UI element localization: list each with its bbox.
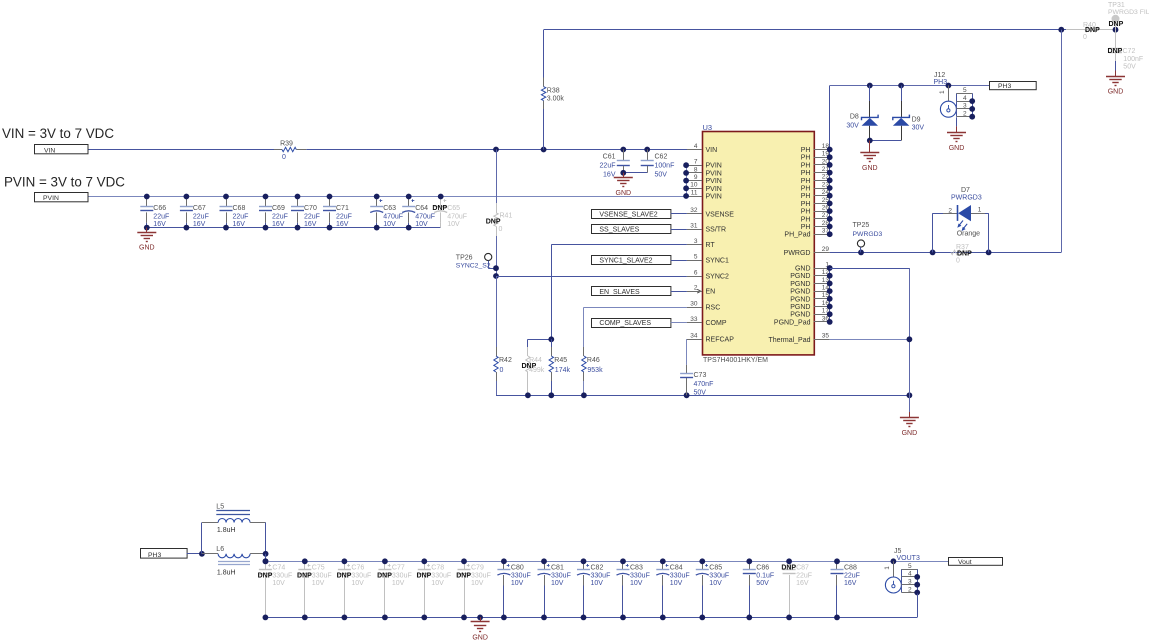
svg-text:22uF: 22uF [233, 214, 249, 221]
wire Vout bottom rail [265, 617, 917, 619]
resistor R38 [541, 78, 564, 110]
svg-text:PH: PH [801, 178, 811, 185]
svg-text:C81: C81 [551, 564, 564, 571]
test point TP26 [456, 253, 492, 269]
svg-text:10V: 10V [670, 580, 683, 587]
svg-text:PH: PH [801, 162, 811, 169]
svg-text:10: 10 [690, 182, 698, 189]
svg-text:0: 0 [1083, 34, 1087, 41]
svg-text:499k: 499k [529, 367, 545, 374]
svg-text:J5: J5 [894, 548, 902, 555]
diode D7 (LED PWRGD3 Orange) [933, 187, 989, 253]
wire REFCAP down [686, 339, 688, 365]
junction L junction left [199, 551, 205, 557]
svg-text:C84: C84 [670, 564, 683, 571]
svg-text:10V: 10V [272, 580, 285, 587]
inductor L6 [202, 546, 266, 577]
net label box EN_SLAVES [592, 287, 671, 296]
svg-text:16V: 16V [272, 221, 285, 228]
capacitor C86 [743, 561, 774, 617]
svg-text:GND: GND [139, 245, 155, 252]
svg-text:L5: L5 [216, 504, 224, 511]
svg-text:16V: 16V [304, 221, 317, 228]
svg-text:GND: GND [902, 430, 918, 437]
svg-text:330uF: 330uF [471, 573, 491, 580]
wire SYNC1 net [671, 260, 687, 262]
svg-text:PH: PH [801, 224, 811, 231]
net flag PH3 [990, 82, 1037, 90]
svg-text:330uF: 330uF [351, 573, 371, 580]
resistor R44 (DNP) [522, 347, 545, 395]
capacitor C81 [538, 561, 571, 617]
wire VIN rail right [306, 149, 687, 151]
svg-text:R38: R38 [547, 87, 560, 94]
junction gnd rail [525, 392, 912, 398]
svg-text:PWRGD: PWRGD [784, 250, 811, 257]
svg-text:22uF: 22uF [272, 214, 288, 221]
wire top feedback wire [544, 29, 1066, 31]
wire R42 to gnd rail [496, 381, 498, 395]
svg-text:470uF: 470uF [447, 214, 467, 221]
wire R38 upper [543, 30, 545, 78]
svg-text:PH3: PH3 [934, 79, 948, 86]
resistor R42 [494, 347, 512, 381]
svg-text:D8: D8 [850, 114, 859, 121]
svg-text:5: 5 [963, 87, 967, 94]
svg-text:330uF: 330uF [272, 573, 292, 580]
svg-text:10V: 10V [630, 580, 643, 587]
svg-text:VIN: VIN [706, 147, 718, 154]
svg-text:22uF: 22uF [796, 573, 812, 580]
svg-text:TP25: TP25 [853, 222, 870, 229]
svg-text:1: 1 [939, 90, 946, 94]
wire PH to protection [830, 85, 990, 87]
wire PVIN cap bottom rail [147, 227, 441, 229]
svg-text:3.00k: 3.00k [547, 95, 565, 102]
capacitor C74 [258, 561, 293, 617]
title text VIN [2, 126, 114, 141]
svg-text:C83: C83 [630, 564, 643, 571]
svg-text:DNP: DNP [1108, 48, 1123, 55]
capacitor C88 [831, 561, 860, 617]
junction SYNC2 node [493, 265, 499, 279]
U3 left pins (stubs, numbers, names) [687, 143, 734, 344]
svg-text:SS_SLAVES: SS_SLAVES [599, 227, 639, 234]
svg-text:10V: 10V [511, 580, 524, 587]
svg-text:0.1uF: 0.1uF [756, 573, 774, 580]
svg-text:DNP: DNP [456, 573, 471, 580]
junction C61 gnd node [620, 170, 626, 176]
wire D9 bottom link [870, 140, 901, 142]
svg-text:3: 3 [908, 579, 912, 586]
svg-text:GND: GND [949, 145, 965, 152]
capacitor C75 [297, 561, 332, 617]
svg-text:PVIN: PVIN [706, 170, 722, 177]
svg-text:C79: C79 [471, 564, 484, 571]
svg-text:330uF: 330uF [431, 573, 451, 580]
net label box SYNC1_SLAVE2 [592, 256, 671, 265]
svg-text:10V: 10V [383, 221, 396, 228]
svg-text:VSENSE: VSENSE [706, 211, 735, 218]
svg-text:22uF: 22uF [193, 214, 209, 221]
svg-text:C61: C61 [603, 154, 616, 161]
svg-text:GND: GND [795, 266, 811, 273]
svg-text:VSENSE_SLAVE2: VSENSE_SLAVE2 [599, 211, 657, 218]
svg-text:DNP: DNP [337, 573, 352, 580]
svg-text:C63: C63 [383, 205, 396, 212]
wire R45 upper lead [551, 339, 553, 347]
wire SYNC2 [496, 276, 687, 278]
U3 right pins (stubs, numbers, names) [768, 143, 829, 344]
svg-text:330uF: 330uF [312, 573, 332, 580]
svg-text:4: 4 [908, 571, 912, 578]
resistor R45 [549, 347, 570, 381]
svg-text:330uF: 330uF [709, 573, 729, 580]
svg-text:PVIN: PVIN [43, 195, 59, 202]
svg-text:DNP: DNP [781, 564, 796, 571]
wire VIN rail left [89, 149, 275, 151]
svg-text:J12: J12 [934, 72, 945, 79]
wire R44 branch down [527, 339, 529, 347]
svg-text:DNP: DNP [1085, 27, 1100, 34]
svg-text:PH: PH [801, 186, 811, 193]
svg-text:R42: R42 [499, 357, 512, 364]
svg-text:10V: 10V [447, 221, 460, 228]
capacitor C73 [680, 365, 713, 397]
svg-text:470nF: 470nF [694, 381, 714, 388]
svg-text:PH: PH [801, 201, 811, 208]
junction PH pin bus [827, 147, 833, 238]
svg-text:7: 7 [694, 159, 698, 166]
svg-text:PWRGD3: PWRGD3 [951, 195, 982, 202]
svg-text:TPS7H4001HKY/EM: TPS7H4001HKY/EM [703, 357, 768, 364]
svg-text:VOUT3: VOUT3 [897, 555, 920, 562]
svg-text:0: 0 [500, 367, 504, 374]
svg-text:EN_SLAVES: EN_SLAVES [599, 289, 640, 296]
svg-text:31: 31 [690, 223, 698, 230]
wire J5 shield down [917, 594, 919, 618]
wire R46 to rail [583, 381, 585, 395]
svg-text:PGND: PGND [790, 296, 810, 303]
junction PH protection wire [867, 83, 951, 89]
svg-text:PH_Pad: PH_Pad [784, 232, 810, 239]
svg-text:PVIN: PVIN [706, 178, 722, 185]
svg-text:9: 9 [694, 174, 698, 181]
svg-text:10V: 10V [351, 580, 364, 587]
svg-text:10V: 10V [415, 221, 428, 228]
svg-text:PWRGD3 FILT: PWRGD3 FILT [1108, 9, 1149, 16]
svg-text:PGND_Pad: PGND_Pad [774, 319, 811, 326]
svg-text:16V: 16V [233, 221, 246, 228]
svg-text:2: 2 [908, 586, 912, 593]
svg-text:C70: C70 [304, 205, 317, 212]
svg-text:RT: RT [706, 242, 716, 249]
svg-text:COMP: COMP [706, 320, 727, 327]
svg-text:C73: C73 [694, 372, 707, 379]
svg-text:D7: D7 [961, 187, 970, 194]
net flag PH3 [141, 549, 188, 559]
net flag VIN [35, 145, 89, 155]
svg-text:10V: 10V [471, 580, 484, 587]
ground [1106, 71, 1125, 96]
svg-text:10V: 10V [551, 580, 564, 587]
wire REFCAP net [686, 339, 688, 341]
svg-text:C74: C74 [272, 564, 285, 571]
svg-text:10V: 10V [312, 580, 325, 587]
svg-text:16V: 16V [193, 221, 206, 228]
net label box VSENSE_SLAVE2 [592, 210, 671, 219]
svg-text:11: 11 [691, 189, 698, 196]
svg-text:470uF: 470uF [383, 214, 403, 221]
svg-text:DNP: DNP [377, 573, 392, 580]
ground [137, 228, 156, 252]
svg-text:TP26: TP26 [456, 255, 473, 262]
wire TP26 to node [488, 268, 496, 270]
svg-text:VIN = 3V to 7 VDC: VIN = 3V to 7 VDC [2, 126, 114, 141]
svg-text:10V: 10V [709, 580, 722, 587]
svg-text:6: 6 [694, 269, 698, 276]
svg-text:SYNC2_S2: SYNC2_S2 [456, 262, 491, 269]
junction PVIN rail [144, 194, 444, 200]
svg-text:L6: L6 [216, 546, 224, 553]
junction PVIN bottom rail [144, 225, 412, 231]
connector J12 [934, 72, 976, 120]
svg-text:32: 32 [690, 207, 698, 214]
svg-text:50V: 50V [756, 580, 769, 587]
junction VIN rail [493, 147, 650, 153]
svg-text:EN: EN [706, 289, 716, 296]
svg-text:GND: GND [616, 190, 632, 197]
capacitor C79 [456, 561, 491, 617]
svg-text:100nF: 100nF [1123, 56, 1143, 63]
svg-text:TP31: TP31 [1108, 2, 1125, 9]
junction zener gnd node [867, 138, 873, 144]
diode D9 (zener 30V) [893, 86, 925, 141]
svg-text:10V: 10V [591, 580, 604, 587]
wire PH3 lead [187, 553, 202, 555]
svg-text:PH: PH [801, 155, 811, 162]
capacitor C69 [259, 197, 288, 228]
svg-text:Thermal_Pad: Thermal_Pad [768, 337, 810, 344]
svg-text:R45: R45 [554, 357, 567, 364]
svg-text:C80: C80 [511, 564, 524, 571]
capacitor C80 [497, 561, 530, 617]
svg-text:PH: PH [801, 209, 811, 216]
capacitor C76 [337, 561, 372, 617]
svg-text:22uF: 22uF [844, 573, 860, 580]
capacitor C64 [402, 197, 435, 228]
svg-text:PH: PH [801, 147, 811, 154]
svg-text:0: 0 [956, 257, 960, 264]
svg-text:22uF: 22uF [336, 214, 352, 221]
svg-text:3: 3 [694, 238, 698, 245]
capacitor C65 [432, 197, 467, 228]
wire RSC down [583, 307, 585, 347]
svg-text:DNP: DNP [1109, 21, 1124, 28]
svg-text:PH: PH [801, 216, 811, 223]
wire PWRGD feedback vertical [1061, 30, 1063, 253]
svg-text:1: 1 [978, 206, 982, 213]
inductor L5 [202, 504, 266, 554]
wire TP26 stub [488, 261, 490, 269]
svg-text:4: 4 [694, 143, 698, 150]
svg-text:SYNC1_SLAVE2: SYNC1_SLAVE2 [599, 258, 652, 265]
svg-text:16V: 16V [153, 221, 166, 228]
wire EN net [671, 291, 687, 293]
svg-text:10V: 10V [392, 580, 405, 587]
svg-text:C86: C86 [756, 564, 769, 571]
wire GND pin1 east [830, 268, 910, 270]
capacitor C82 [577, 561, 610, 617]
svg-text:C72: C72 [1123, 48, 1136, 55]
net flag Vout [949, 558, 1003, 566]
svg-text:C67: C67 [193, 205, 206, 212]
svg-text:C71: C71 [336, 205, 349, 212]
svg-text:GND: GND [862, 165, 878, 172]
svg-text:C69: C69 [272, 205, 285, 212]
wire Vout top rail to flag [893, 561, 948, 563]
ground [900, 412, 919, 437]
junction Vout top rail [263, 558, 840, 564]
svg-text:SYNC1: SYNC1 [706, 258, 729, 265]
ground [860, 141, 879, 173]
junction PVIN pin bus [683, 162, 689, 199]
ground [947, 126, 966, 151]
net label box COMP_SLAVES [592, 319, 671, 328]
svg-text:R39: R39 [280, 140, 293, 147]
svg-text:PGND: PGND [790, 304, 810, 311]
svg-text:470uF: 470uF [415, 214, 435, 221]
svg-text:PH3: PH3 [998, 83, 1011, 90]
svg-text:5: 5 [908, 563, 912, 570]
svg-text:GND: GND [472, 634, 488, 640]
svg-text:30: 30 [690, 301, 698, 308]
svg-text:Orange: Orange [957, 231, 980, 238]
svg-text:C75: C75 [312, 564, 325, 571]
svg-text:174k: 174k [555, 367, 571, 374]
svg-text:DNP: DNP [432, 205, 447, 212]
net flag PVIN [35, 193, 89, 203]
svg-text:VIN: VIN [44, 148, 55, 155]
svg-text:PWRGD3: PWRGD3 [853, 231, 883, 238]
wire PH pin bus [829, 86, 831, 235]
svg-text:0: 0 [282, 154, 286, 161]
svg-text:30V: 30V [912, 124, 925, 131]
svg-text:16V: 16V [336, 221, 349, 228]
svg-text:U3: U3 [703, 123, 713, 132]
svg-text:DNP: DNP [417, 573, 432, 580]
svg-text:50V: 50V [694, 390, 707, 397]
wire VIN to R41 [496, 150, 498, 204]
wire RSC net [584, 307, 687, 309]
wire R38 lower [543, 109, 545, 150]
capacitor C83 [617, 561, 650, 617]
svg-text:2: 2 [948, 207, 952, 214]
svg-text:C66: C66 [153, 205, 166, 212]
junction RT-R44 junction [548, 336, 554, 342]
svg-text:330uF: 330uF [392, 573, 412, 580]
capacitor C61 [600, 150, 630, 179]
svg-text:PH3: PH3 [148, 552, 161, 559]
junction PWRGD net [858, 250, 991, 256]
svg-text:330uF: 330uF [630, 573, 650, 580]
svg-text:DNP: DNP [297, 573, 312, 580]
resistor R41 (DNP) [486, 203, 513, 236]
wire SYNC2 node to R42 [496, 276, 498, 347]
svg-text:22uF: 22uF [600, 163, 616, 170]
wire PVIN rail [89, 196, 687, 198]
svg-text:PGND: PGND [790, 281, 810, 288]
svg-text:C78: C78 [431, 564, 444, 571]
svg-text:PGND: PGND [790, 273, 810, 280]
svg-text:PGND: PGND [790, 312, 810, 319]
svg-text:C82: C82 [591, 564, 604, 571]
wire VSENSE net [671, 213, 687, 215]
test point TP31 (DNP) [1108, 2, 1149, 30]
capacitor C85 [696, 561, 729, 617]
wire PVIN pin bus [686, 165, 688, 196]
svg-text:COMP_SLAVES: COMP_SLAVES [599, 320, 651, 327]
svg-text:DNP: DNP [258, 573, 273, 580]
svg-text:Vout: Vout [958, 559, 972, 566]
resistor R37 (DNP) [951, 244, 972, 264]
svg-text:1: 1 [884, 566, 891, 570]
EN pin arrow [697, 289, 701, 293]
svg-text:PGND: PGND [790, 289, 810, 296]
svg-text:PVIN: PVIN [706, 194, 722, 201]
junction GND feed [907, 336, 913, 342]
wire R44 branch horizontal [528, 339, 551, 341]
net label box SS_SLAVES [592, 225, 671, 234]
svg-text:16V: 16V [844, 580, 857, 587]
wire J12 shield to gnd [956, 117, 958, 126]
svg-text:SS/TR: SS/TR [706, 227, 727, 234]
capacitor C68 [220, 197, 249, 228]
capacitor C78 [417, 561, 452, 617]
svg-text:0: 0 [499, 226, 503, 233]
svg-text:100nF: 100nF [655, 163, 675, 170]
wire TP25 stub [860, 247, 862, 252]
test point TP25 [853, 222, 883, 247]
svg-text:C87: C87 [796, 564, 809, 571]
svg-text:PVIN: PVIN [706, 186, 722, 193]
svg-text:C77: C77 [392, 564, 405, 571]
junction PGND pin bus [827, 265, 833, 325]
capacitor C71 [323, 197, 352, 228]
svg-text:953k: 953k [587, 367, 603, 374]
svg-text:330uF: 330uF [670, 573, 690, 580]
svg-text:C64: C64 [415, 205, 428, 212]
junction L junction right [263, 551, 269, 564]
svg-text:1.8uH: 1.8uH [217, 527, 236, 534]
svg-text:C62: C62 [655, 154, 668, 161]
svg-text:C68: C68 [233, 205, 246, 212]
resistor R39 [274, 140, 306, 161]
svg-text:GND: GND [1108, 89, 1124, 96]
capacitor C77 [377, 561, 412, 617]
svg-text:2: 2 [694, 285, 698, 292]
wire PWRGD net [830, 252, 1062, 254]
svg-text:30V: 30V [846, 122, 859, 129]
wire RT down [551, 245, 553, 340]
diode D8 (zener 30V) [846, 86, 878, 141]
junction top wire [1058, 27, 1118, 33]
svg-text:C85: C85 [709, 564, 722, 571]
resistor R46 [582, 347, 603, 381]
svg-text:DNP: DNP [957, 250, 972, 257]
svg-text:C76: C76 [351, 564, 364, 571]
svg-text:330uF: 330uF [551, 573, 571, 580]
